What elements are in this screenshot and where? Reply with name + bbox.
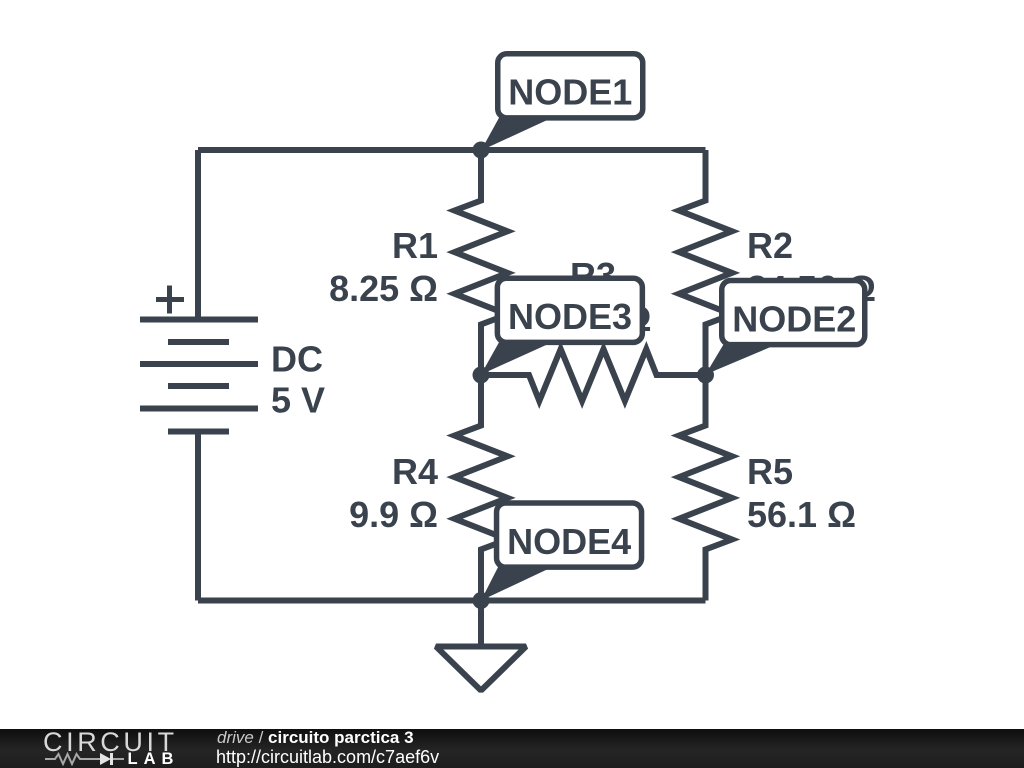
svg-text:56.1 Ω: 56.1 Ω bbox=[747, 494, 856, 535]
svg-text:NODE4: NODE4 bbox=[507, 521, 631, 562]
svg-text:NODE3: NODE3 bbox=[508, 296, 632, 337]
svg-text:9.9 Ω: 9.9 Ω bbox=[349, 494, 438, 535]
svg-text:NODE1: NODE1 bbox=[508, 72, 632, 113]
svg-text:R5: R5 bbox=[747, 451, 793, 492]
svg-text:R2: R2 bbox=[747, 225, 793, 266]
svg-text:5 V: 5 V bbox=[271, 380, 325, 421]
svg-text:NODE2: NODE2 bbox=[732, 299, 856, 340]
svg-text:DC: DC bbox=[271, 339, 323, 380]
svg-text:8.25 Ω: 8.25 Ω bbox=[329, 268, 438, 309]
svg-text:R1: R1 bbox=[392, 225, 438, 266]
svg-text:R4: R4 bbox=[392, 451, 438, 492]
